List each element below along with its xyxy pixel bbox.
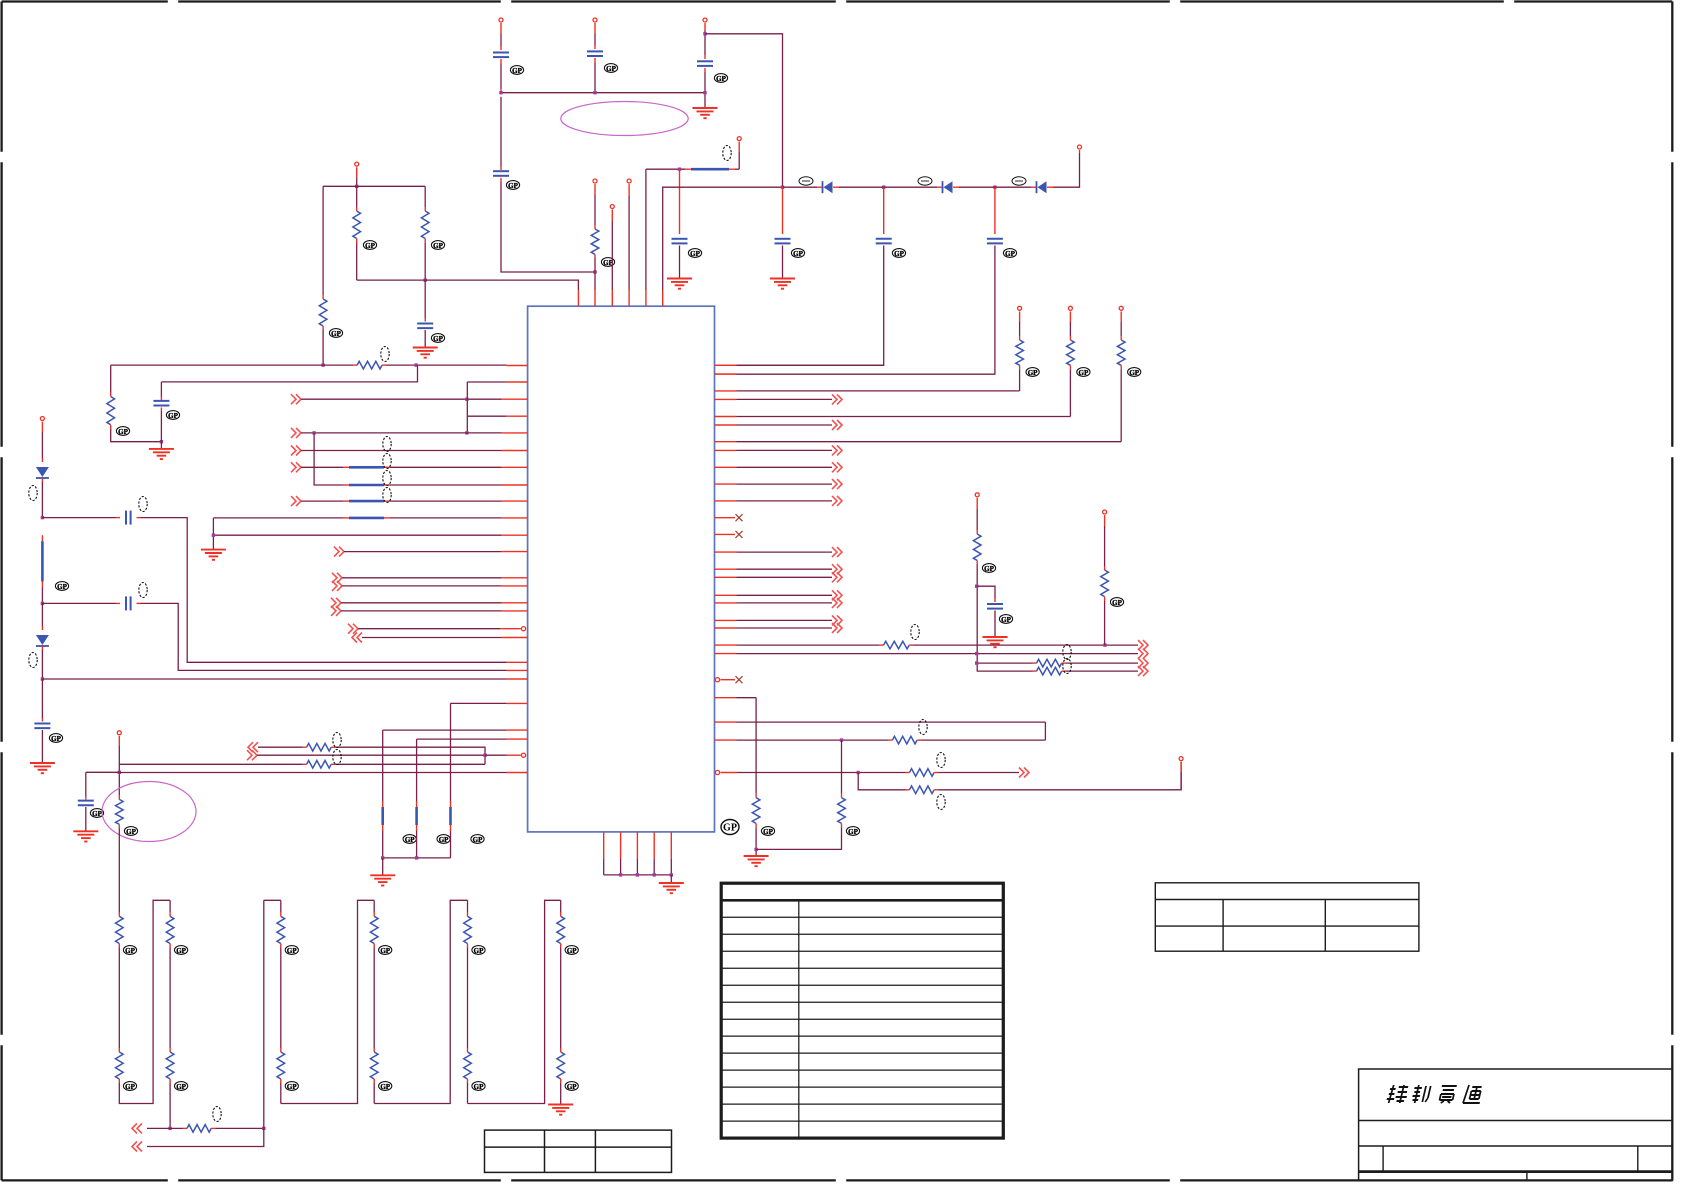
svg-text:GP: GP [92, 810, 102, 818]
svg-text:GP: GP [1112, 599, 1122, 607]
svg-text:GP: GP [1129, 369, 1139, 377]
svg-text:GP: GP [606, 65, 616, 73]
svg-text:GP: GP [723, 822, 737, 833]
svg-text:GP: GP [716, 75, 726, 83]
svg-text:GP: GP [474, 947, 484, 955]
svg-text:GP: GP [848, 828, 858, 836]
svg-text:GP: GP [474, 1083, 484, 1091]
svg-text:GP: GP [365, 242, 375, 250]
svg-text:GP: GP [125, 947, 135, 955]
svg-text:GP: GP [57, 583, 67, 591]
svg-text:GP: GP [512, 67, 522, 75]
svg-text:GP: GP [567, 947, 577, 955]
svg-text:GP: GP [1001, 616, 1011, 624]
svg-text:GP: GP [473, 836, 483, 844]
svg-text:GP: GP [126, 828, 136, 836]
svg-text:GP: GP [287, 947, 297, 955]
svg-text:GP: GP [1005, 250, 1015, 258]
svg-text:GP: GP [984, 565, 994, 573]
svg-text:GP: GP [894, 250, 904, 258]
svg-text:GP: GP [176, 1083, 186, 1091]
svg-text:GP: GP [168, 412, 178, 420]
svg-text:GP: GP [176, 947, 186, 955]
svg-text:GP: GP [433, 335, 443, 343]
svg-text:GP: GP [1028, 369, 1038, 377]
svg-text:GP: GP [1079, 369, 1089, 377]
svg-text:GP: GP [763, 828, 773, 836]
svg-text:GP: GP [567, 1083, 577, 1091]
svg-text:GP: GP [287, 1083, 297, 1091]
svg-text:GP: GP [690, 250, 700, 258]
svg-text:GP: GP [439, 836, 449, 844]
svg-text:GP: GP [125, 1083, 135, 1091]
svg-text:GP: GP [433, 242, 443, 250]
svg-text:GP: GP [380, 1083, 390, 1091]
svg-text:GP: GP [331, 330, 341, 338]
svg-text:GP: GP [405, 836, 415, 844]
svg-text:GP: GP [508, 182, 518, 190]
svg-text:GP: GP [118, 428, 128, 436]
svg-text:GP: GP [51, 735, 61, 743]
svg-text:GP: GP [793, 250, 803, 258]
svg-text:GP: GP [380, 947, 390, 955]
